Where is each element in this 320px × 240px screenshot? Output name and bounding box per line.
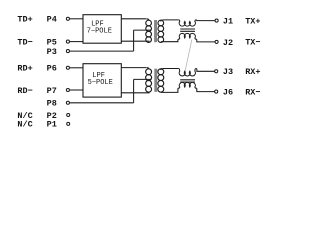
svg-text:P3: P3 bbox=[47, 47, 57, 57]
svg-text:P8: P8 bbox=[47, 99, 57, 109]
pin P2 bbox=[67, 114, 70, 117]
choke L2 bottom winding bbox=[178, 82, 197, 88]
transformer T2 secondary winding bbox=[158, 69, 164, 93]
svg-text:TD−: TD− bbox=[17, 37, 32, 47]
svg-text:J1: J1 bbox=[223, 16, 233, 26]
wire LPF1 out1 to T1 primary top bbox=[121, 18, 146, 20]
pin P1 bbox=[67, 122, 70, 125]
svg-text:RD+: RD+ bbox=[17, 64, 32, 74]
svg-text:RD−: RD− bbox=[17, 86, 32, 96]
svg-text:P1: P1 bbox=[47, 120, 57, 130]
svg-text:P6: P6 bbox=[47, 64, 57, 74]
wire riser P8 to center tap bbox=[133, 79, 135, 102]
svg-text:5−POLE: 5−POLE bbox=[88, 79, 113, 87]
svg-text:J6: J6 bbox=[223, 87, 233, 97]
svg-text:J3: J3 bbox=[223, 67, 233, 77]
pin J2 bbox=[215, 40, 218, 43]
wire T2 secondary bottom to choke L2 bbox=[161, 88, 178, 92]
wire T2 primary center tap bbox=[134, 78, 151, 80]
wire choke L1 bottom to J2 bbox=[197, 39, 215, 42]
wire T2 secondary top to choke L2 bbox=[163, 68, 179, 70]
callout leader line bbox=[185, 40, 192, 74]
wire riser P3 to center tap bbox=[133, 30, 135, 51]
pin J3 bbox=[215, 70, 218, 73]
wire P7 to LPF2 bbox=[70, 89, 83, 91]
wire P8 to T2 primary center tap riser bbox=[70, 102, 134, 104]
wire choke L2 top to J3 bbox=[196, 69, 215, 72]
pin J6 bbox=[215, 90, 218, 93]
choke L1 core lines bbox=[180, 29, 195, 31]
transformer T2 core bbox=[154, 69, 157, 92]
svg-text:N/C: N/C bbox=[17, 120, 32, 130]
svg-text:TX+: TX+ bbox=[245, 16, 260, 26]
wire P5 to LPF1 bbox=[70, 41, 83, 43]
svg-text:RX+: RX+ bbox=[245, 67, 260, 77]
wire T1 primary center tap bbox=[134, 29, 151, 31]
pin P7 bbox=[66, 88, 69, 91]
wire T1 secondary top to choke L1 bbox=[163, 19, 179, 21]
pin P8 bbox=[66, 101, 69, 104]
transformer T1 secondary winding bbox=[158, 20, 164, 43]
wire P6 to LPF2 bbox=[70, 67, 83, 69]
wire LPF2 out2 to T2 primary bottom bbox=[121, 92, 149, 94]
transformer T2 primary winding bbox=[146, 68, 152, 93]
choke L1 bottom winding bbox=[178, 33, 197, 39]
svg-text:P4: P4 bbox=[47, 15, 57, 25]
svg-text:TD+: TD+ bbox=[17, 15, 32, 25]
wire LPF2 out1 to T2 primary top bbox=[121, 67, 146, 69]
wire T1 secondary bottom to choke L1 bbox=[161, 39, 178, 41]
svg-text:RX−: RX− bbox=[245, 87, 260, 97]
svg-text:TX−: TX− bbox=[245, 38, 260, 48]
svg-text:7−POLE: 7−POLE bbox=[87, 27, 112, 35]
pin P5 bbox=[66, 40, 69, 43]
filter U2 LPF 5-POLE box bbox=[83, 64, 121, 97]
wire LPF1 out2 to T1 primary bottom bbox=[121, 40, 149, 42]
pin P3 bbox=[66, 50, 69, 53]
svg-text:J2: J2 bbox=[223, 38, 233, 48]
pin P4 bbox=[66, 17, 69, 20]
choke L2 top winding bbox=[179, 69, 196, 76]
wire P4 to LPF1 bbox=[70, 18, 83, 20]
choke L2 core lines bbox=[180, 80, 195, 82]
transformer T1 primary winding bbox=[146, 19, 152, 43]
pin J1 bbox=[215, 19, 218, 22]
wire choke L2 bottom to J6 bbox=[197, 88, 215, 91]
choke L1 top winding bbox=[179, 20, 196, 26]
svg-text:P7: P7 bbox=[47, 86, 57, 96]
wire P3 to T1 primary center tap riser bbox=[70, 50, 134, 52]
svg-text:P5: P5 bbox=[47, 37, 57, 47]
transformer T1 core bbox=[154, 20, 157, 42]
pin P6 bbox=[66, 66, 69, 69]
wire choke L1 top to J1 bbox=[196, 19, 215, 22]
filter U1 LPF 7-POLE box bbox=[83, 15, 121, 44]
